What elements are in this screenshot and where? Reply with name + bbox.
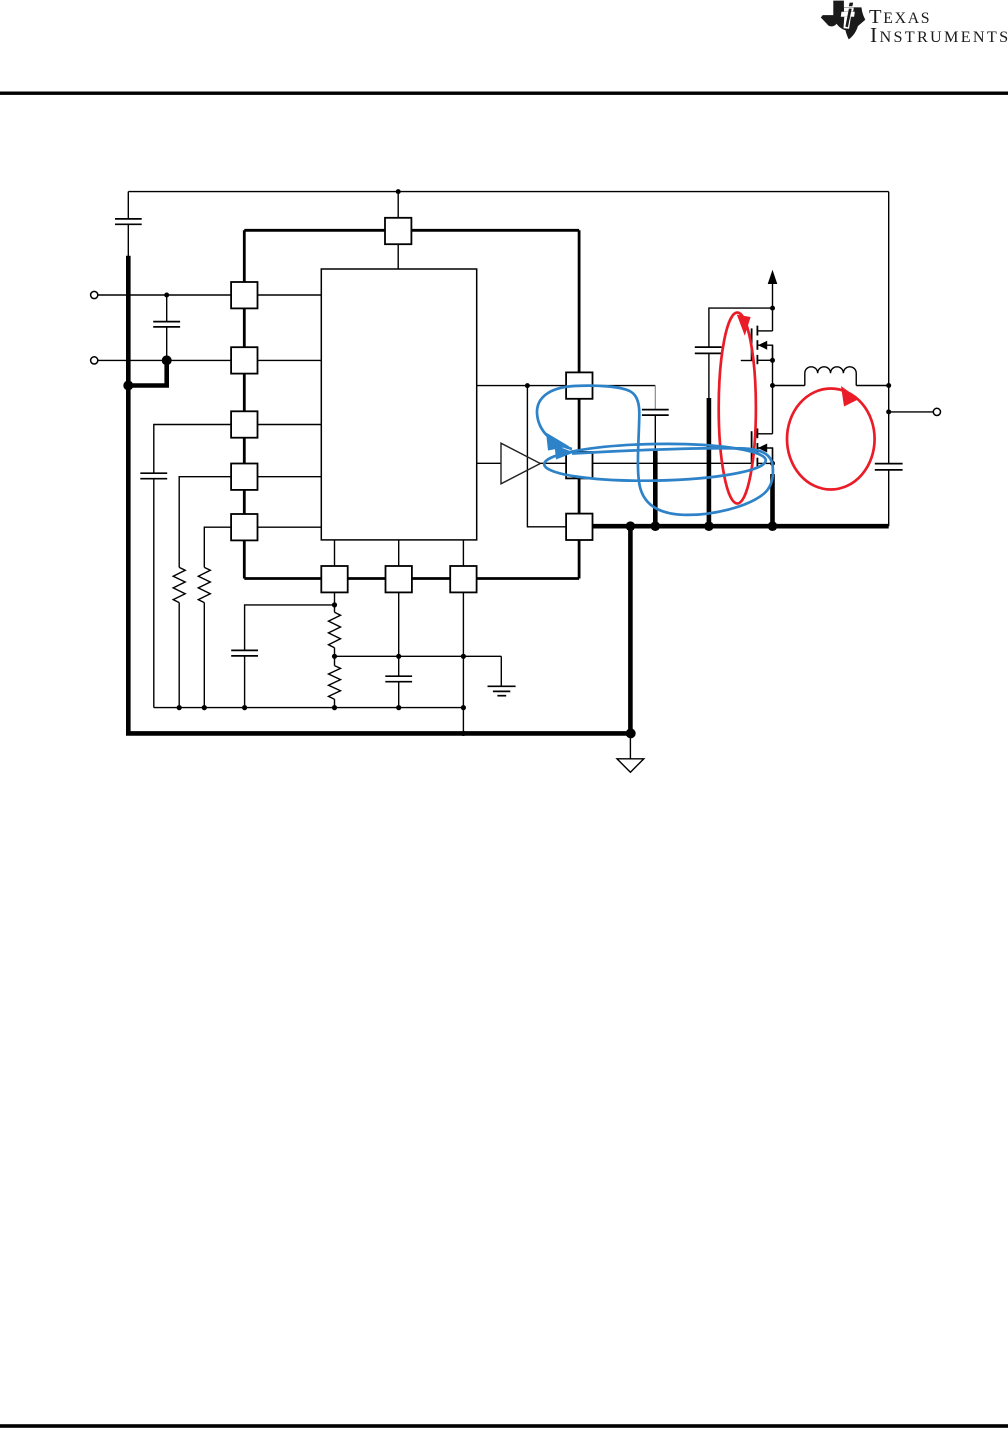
capacitor C3 (soft-start cap) with wire from pin L3: [140, 425, 231, 708]
pin B3 (AGND pin): [450, 566, 476, 592]
TI logo bug (Texas state with ti): [821, 1, 866, 40]
wire: Q2 source to ground bus (thin then thick): [772, 448, 774, 526]
node: dot on SW wire: [525, 383, 530, 388]
terminal: input terminal EN: [91, 357, 232, 364]
wire: pin L5 to IC: [258, 526, 322, 528]
current loop: blue flat ellipse loop: [544, 442, 766, 482]
capacitor C5 (compensation cap): [385, 592, 412, 707]
wire: thick power ground bus: [593, 524, 889, 529]
main IC U1: [321, 269, 476, 540]
node: dot Q2 source/body: [770, 461, 775, 466]
wire: thick left pin column bus: [243, 230, 246, 578]
current loop: red high-frequency loop ellipse: [719, 313, 756, 504]
wire: thin analog ground bus: [154, 707, 464, 709]
header rule: [0, 92, 1008, 95]
power arrow: VIN supply up arrow: [768, 270, 778, 331]
pin B2 (COMP pin): [386, 566, 412, 592]
node: dot output tap: [886, 409, 891, 414]
capacitor C8 (output cap): [875, 464, 903, 470]
wire: Q1 source to switch node: [772, 345, 774, 434]
node: big dot gnd bus at FET source: [768, 521, 778, 531]
capacitor C1 (input bulk cap top-left): [115, 192, 142, 257]
current loop arrow: blue arrow 1: [546, 433, 570, 451]
node: big dot at bottom ground junction: [626, 728, 636, 738]
pin L4: [231, 464, 257, 490]
wire: pin T1 to IC top: [397, 244, 399, 269]
current loop arrow: blue arrow 2: [555, 445, 575, 460]
wire: switch node to inductor: [773, 385, 805, 387]
current loop: red output loop circle: [787, 389, 875, 490]
pin L5: [231, 514, 257, 540]
node: dot on VIN wire: [164, 293, 169, 298]
wire: pin L1 to IC: [258, 294, 322, 296]
resistor R1 (pin L4 pulldown): [173, 477, 231, 708]
node: dot at feedback divider top tap: [332, 602, 337, 607]
pin R1 (SW pin): [566, 372, 592, 398]
pin R3 (PGND pin): [566, 514, 592, 540]
transistor Q2 (low-side MOSFET): [752, 428, 773, 467]
current loop arrow: red arrow on output loop: [841, 386, 859, 407]
node: dot at feedback mid tap: [332, 654, 337, 659]
capacitor C4 (feedforward cap): [231, 605, 334, 708]
wire: thick bottom pin row bus: [244, 577, 579, 580]
terminal: input terminal VIN: [91, 291, 232, 298]
wire: thick right pin column bus: [578, 230, 581, 578]
node: big dot gnd bus at C7: [704, 521, 714, 531]
node: dot mid rail at B2 column: [396, 654, 401, 659]
wire: IC bottom to pin B1: [334, 540, 336, 566]
node: big junction dot on VIN rail: [123, 381, 133, 391]
wire: thick VIN rail left + bottom ground return: [128, 256, 631, 734]
terminal: output terminal VOUT: [889, 408, 941, 415]
wire: feedback mid rail: [335, 655, 502, 657]
wire: IC bottom to pin B3: [462, 540, 464, 566]
node: dot where B3 column meets thick ground: [461, 731, 466, 736]
wire: stub from top rail to pin T1: [397, 192, 399, 218]
wire: pin L3 to IC: [258, 424, 322, 426]
wire: thick top bus to pin T1 and right column: [244, 229, 579, 232]
node: top rail junction dot: [396, 189, 401, 194]
ground symbol (signal ground, 3 bars): [488, 656, 516, 695]
current loop arrow: red arrow on tall loop: [737, 315, 751, 336]
wire: from SW dot down to pin R3: [527, 386, 566, 527]
resistor R3 (feedback divider top): [329, 592, 341, 656]
wire: IC bottom to pin B2: [398, 540, 400, 566]
inductor L1: [805, 367, 856, 386]
pin L3: [231, 411, 257, 437]
node: switch node dot: [770, 383, 775, 388]
node: dot inductor to rail: [886, 383, 891, 388]
footer rule: [0, 1424, 1008, 1428]
transistor Q1 (high-side MOSFET): [741, 326, 773, 365]
node: big junction dot at EN wire: [162, 355, 172, 365]
node: dot Q1 source/body: [770, 358, 775, 363]
pin L1: [231, 282, 257, 308]
node: dots on analog ground bus: [177, 705, 466, 710]
wire: IC SW output to high-side node: [477, 385, 656, 387]
wire: pin L2 to IC: [258, 359, 322, 361]
current loop: blue gate drive loop path: [537, 386, 773, 515]
wire: inductor to output rail: [856, 385, 889, 387]
gate driver buffer U2 (triangle): [477, 443, 541, 484]
pin L2: [231, 347, 257, 373]
wire: thick drop from gnd bus to bottom return: [628, 526, 633, 733]
pin T1 (VIN pin): [385, 218, 411, 244]
capacitor C2 (decoupling cap): [153, 295, 180, 360]
pin R2 (gate drive pin): [566, 452, 592, 478]
wire: top supply rail: [128, 191, 888, 193]
resistor R4 (feedback divider bottom): [329, 656, 341, 707]
resistor R2 (pin L5 pulldown): [198, 527, 231, 707]
node: big dot gnd bus at C6: [651, 521, 661, 531]
capacitor C7 (bootstrap/bypass cap): [695, 308, 773, 526]
wire: pin B3 column down to ground wire: [462, 592, 464, 733]
node: big dot gnd bus at x630: [626, 521, 636, 531]
pin B1 (FB pin): [321, 566, 347, 592]
ground symbol (power ground, open triangle): [617, 733, 644, 772]
wire: thick jumper from EN node to VIN rail: [128, 360, 166, 385]
node: dot mid rail at B3 column: [461, 654, 466, 659]
node: dot at C7 tap: [770, 306, 775, 311]
TI logo text TEXAS INSTRUMENTS: [869, 6, 1008, 47]
wire: right output rail: [888, 192, 890, 527]
capacitor C6 (snubber cap): [642, 386, 669, 527]
wire: pin L4 to IC: [258, 476, 322, 478]
wire: gate drive to low-side FET gate: [540, 462, 751, 464]
